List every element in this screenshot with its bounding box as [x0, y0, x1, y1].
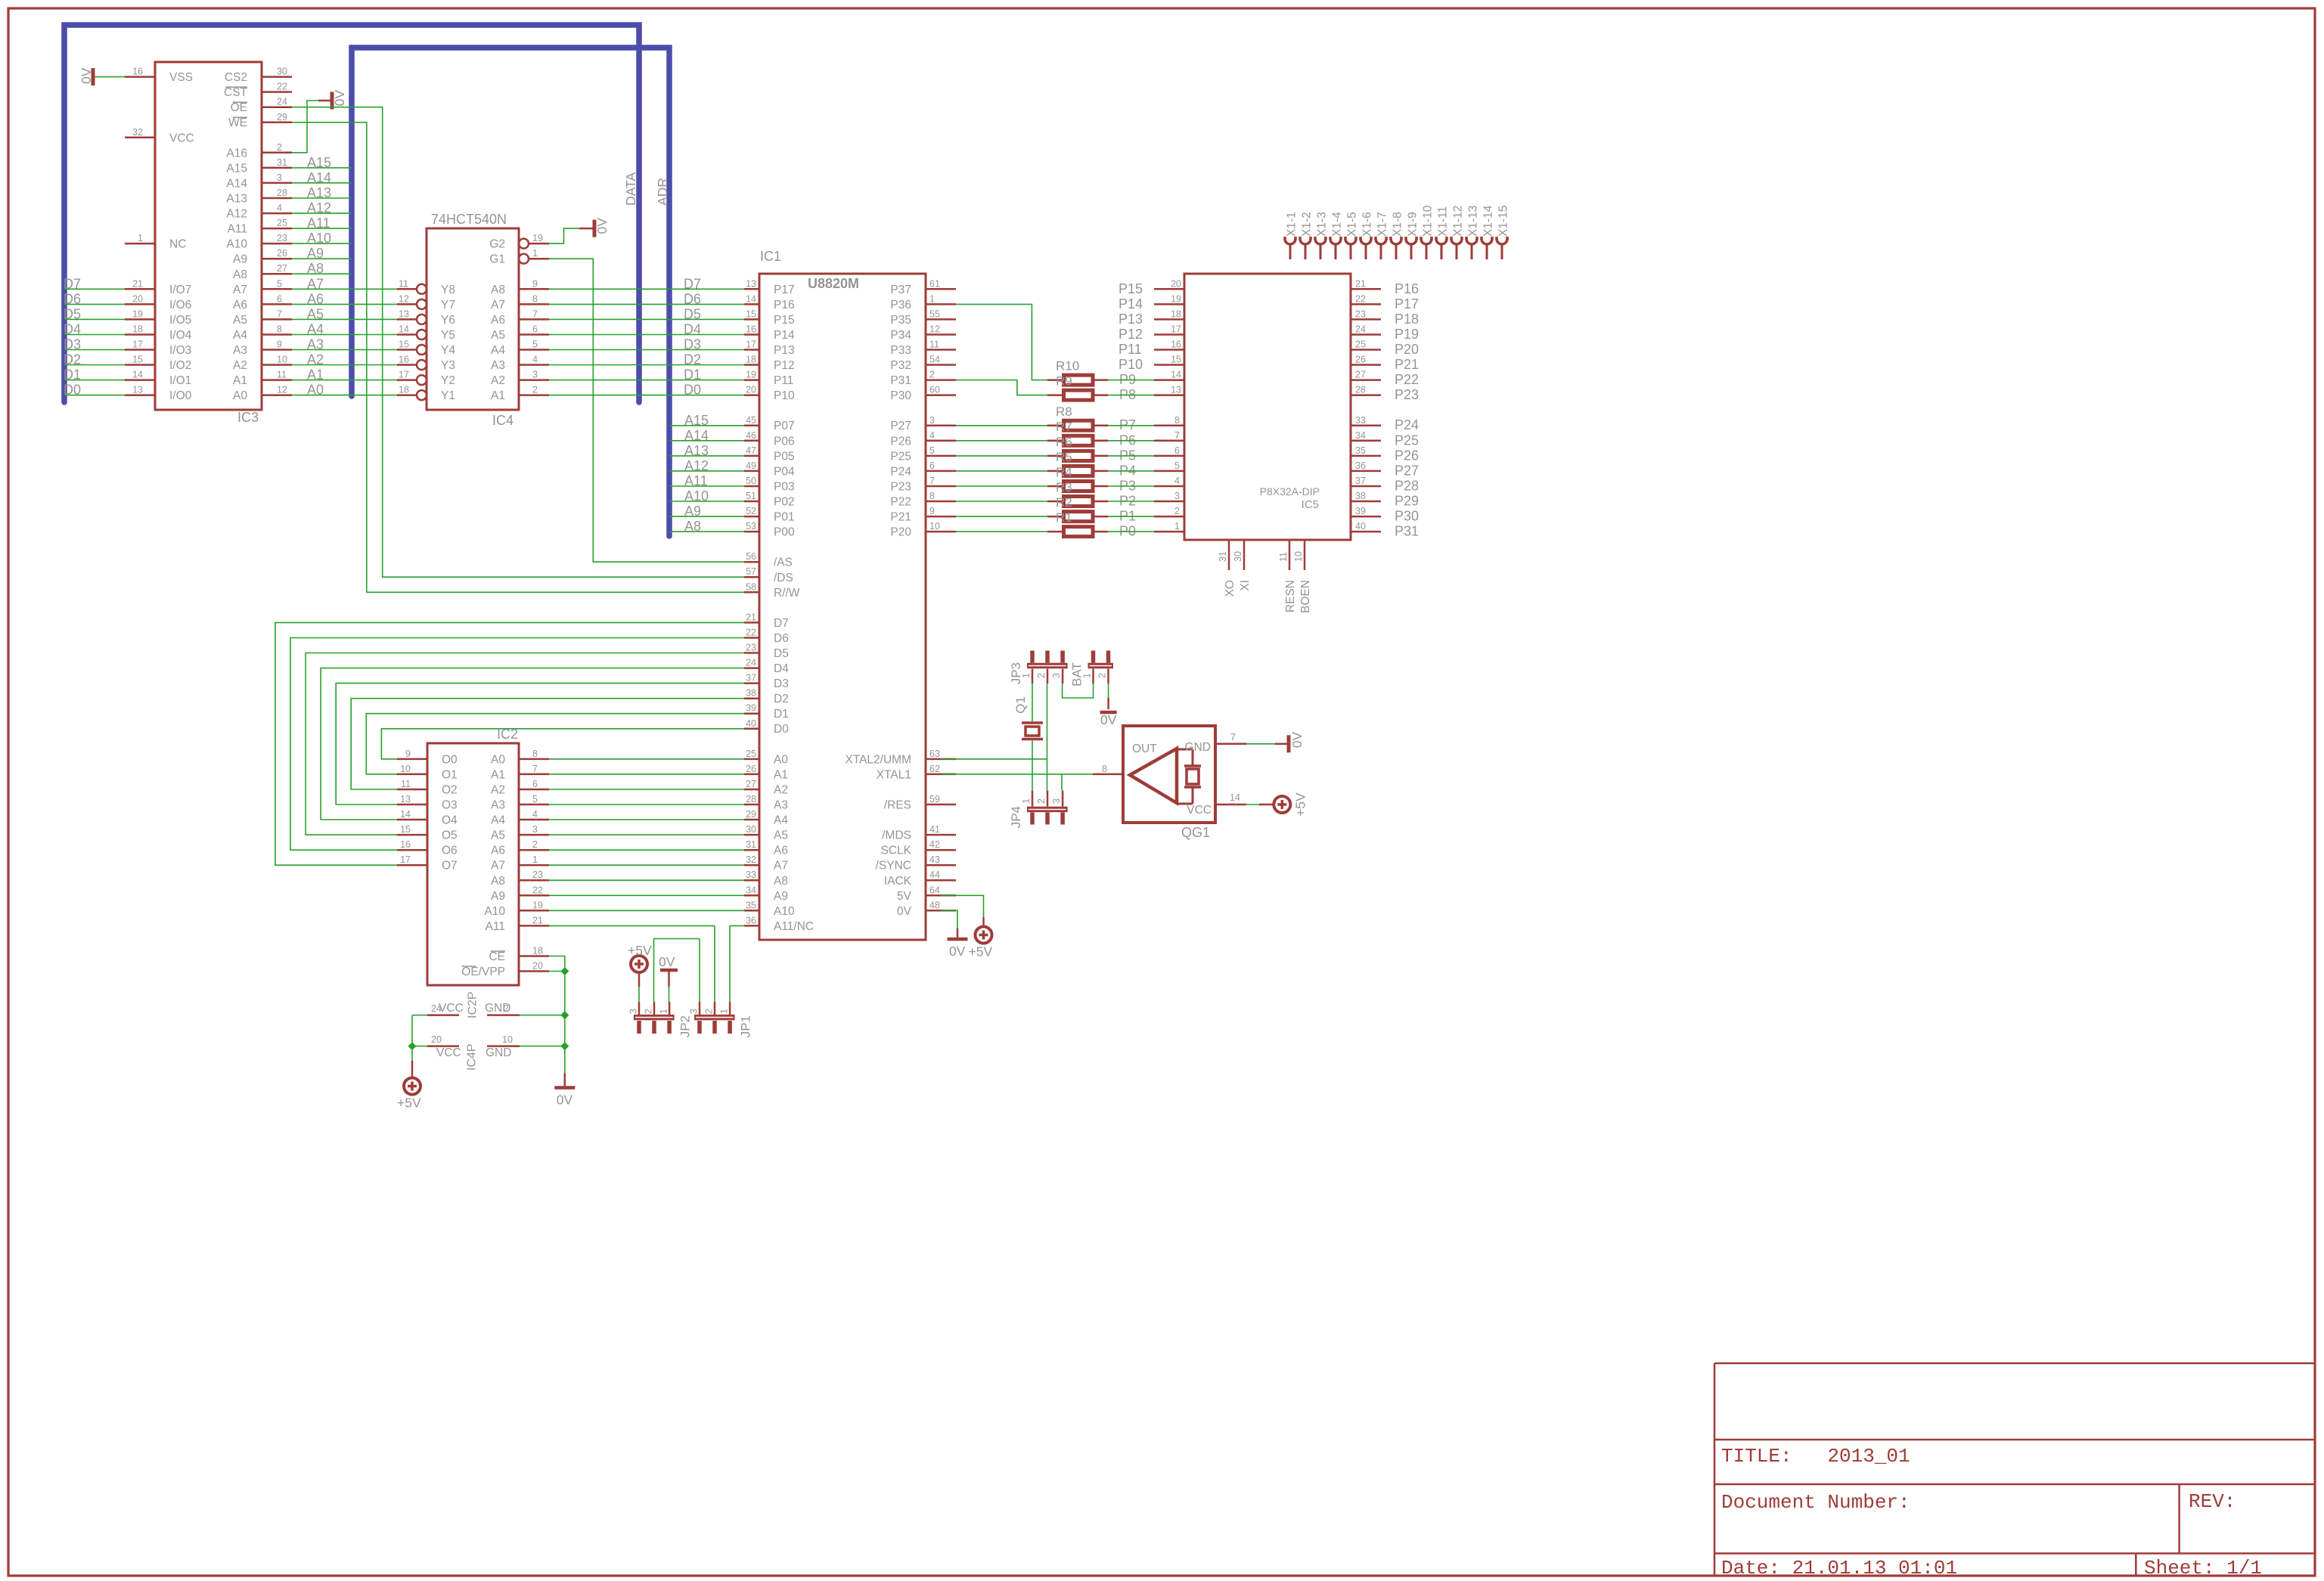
svg-text:35: 35 [746, 900, 756, 910]
svg-text:D5: D5 [64, 306, 81, 321]
svg-text:A6: A6 [774, 845, 788, 857]
svg-text:G2: G2 [489, 238, 505, 251]
svg-text:33: 33 [746, 870, 756, 880]
svg-text:50: 50 [746, 476, 756, 486]
svg-text:20: 20 [1171, 278, 1181, 289]
svg-text:P17: P17 [774, 284, 795, 296]
svg-text:SCLK: SCLK [881, 845, 912, 857]
svg-text:VSS: VSS [169, 71, 193, 84]
svg-text:53: 53 [746, 521, 756, 532]
svg-text:5: 5 [277, 278, 282, 289]
svg-text:P11: P11 [1119, 342, 1142, 357]
svg-text:28: 28 [1355, 385, 1366, 395]
svg-text:6: 6 [532, 779, 538, 789]
svg-text:IC5: IC5 [1302, 498, 1319, 511]
svg-text:P12: P12 [1119, 327, 1143, 342]
svg-text:X1-9: X1-9 [1407, 212, 1420, 237]
svg-text:P27: P27 [1395, 463, 1419, 478]
svg-text:21: 21 [1355, 278, 1366, 289]
svg-text:40: 40 [1355, 521, 1366, 532]
svg-text:31: 31 [277, 157, 287, 168]
svg-text:CE: CE [489, 950, 505, 963]
svg-text:5: 5 [929, 445, 935, 456]
svg-text:15: 15 [132, 355, 143, 365]
svg-text:O4: O4 [442, 814, 458, 827]
svg-text:14: 14 [1230, 792, 1240, 803]
svg-text:30: 30 [277, 67, 287, 77]
svg-text:+5V: +5V [1292, 792, 1308, 817]
svg-text:XTAL1: XTAL1 [877, 768, 911, 781]
svg-text:D0: D0 [64, 383, 81, 398]
svg-text:A6: A6 [307, 291, 324, 306]
svg-text:A8: A8 [307, 261, 324, 276]
svg-text:O1: O1 [442, 768, 458, 781]
svg-text:2: 2 [1036, 673, 1047, 678]
svg-text:U8820M: U8820M [808, 276, 859, 291]
svg-text:P21: P21 [890, 511, 911, 524]
svg-text:A12: A12 [226, 208, 247, 221]
svg-text:A7: A7 [491, 299, 505, 312]
svg-text:52: 52 [746, 506, 756, 516]
svg-text:P11: P11 [774, 374, 793, 387]
svg-text:O3: O3 [442, 799, 458, 812]
svg-text:P37: P37 [890, 284, 911, 296]
svg-text:A1: A1 [307, 367, 324, 383]
svg-text:43: 43 [929, 854, 940, 865]
svg-text:Y3: Y3 [441, 359, 455, 372]
svg-text:35: 35 [1355, 445, 1366, 456]
svg-text:10: 10 [502, 1034, 513, 1045]
svg-text:23: 23 [277, 233, 287, 243]
svg-text:CST: CST [224, 86, 248, 99]
svg-text:GND: GND [485, 1002, 510, 1015]
svg-text:30: 30 [1233, 551, 1243, 562]
svg-text:2: 2 [644, 1009, 654, 1014]
svg-text:1: 1 [929, 293, 935, 304]
svg-text:3: 3 [1174, 491, 1180, 501]
svg-text:A10: A10 [484, 905, 505, 918]
svg-text:A13: A13 [226, 193, 247, 206]
svg-text:P26: P26 [890, 435, 911, 448]
svg-text:39: 39 [746, 703, 756, 714]
svg-text:16: 16 [132, 67, 143, 77]
svg-text:A11: A11 [228, 223, 247, 236]
svg-text:A8: A8 [233, 268, 247, 281]
svg-text:A10: A10 [226, 238, 247, 251]
svg-text:17: 17 [1171, 324, 1181, 335]
svg-text:REV:: REV: [2189, 1490, 2236, 1513]
svg-text:D5: D5 [684, 306, 701, 321]
svg-text:27: 27 [277, 263, 287, 274]
svg-text:X1-7: X1-7 [1376, 212, 1389, 237]
svg-text:A6: A6 [233, 299, 247, 312]
svg-text:25: 25 [746, 749, 756, 759]
svg-text:27: 27 [1355, 370, 1366, 380]
svg-text:23: 23 [1355, 308, 1366, 319]
svg-text:+5V: +5V [969, 944, 993, 959]
svg-text:41: 41 [929, 824, 940, 835]
svg-text:47: 47 [746, 445, 756, 456]
svg-text:I/O3: I/O3 [169, 344, 191, 357]
svg-text:P34: P34 [890, 329, 911, 342]
svg-text:3: 3 [929, 415, 935, 426]
svg-text:6: 6 [1174, 445, 1180, 456]
svg-text:D6: D6 [684, 291, 701, 306]
svg-text:13: 13 [132, 385, 143, 395]
svg-text:P31: P31 [1395, 524, 1419, 539]
svg-text:51: 51 [746, 491, 756, 501]
svg-text:46: 46 [746, 430, 756, 441]
svg-text:14: 14 [400, 809, 411, 820]
svg-text:19: 19 [746, 370, 756, 380]
svg-text:28: 28 [746, 794, 756, 804]
svg-text:R//W: R//W [774, 587, 800, 600]
svg-text:DATA: DATA [623, 172, 638, 206]
svg-text:56: 56 [746, 551, 756, 562]
svg-text:A0: A0 [307, 383, 324, 398]
svg-text:P23: P23 [1395, 387, 1419, 402]
svg-text:12: 12 [277, 385, 287, 395]
svg-text:A2: A2 [774, 784, 788, 797]
svg-text:0V: 0V [1289, 731, 1305, 748]
svg-text:Y2: Y2 [441, 374, 455, 387]
svg-text:74HCT540N: 74HCT540N [431, 212, 507, 227]
svg-text:A0: A0 [774, 753, 788, 766]
svg-text:D1: D1 [64, 367, 81, 383]
svg-text:4: 4 [277, 203, 282, 213]
svg-text:17: 17 [399, 370, 409, 380]
svg-text:D1: D1 [684, 367, 701, 383]
svg-text:12: 12 [929, 324, 940, 335]
svg-text:42: 42 [929, 839, 940, 850]
svg-text:I/O7: I/O7 [169, 284, 191, 296]
svg-text:P17: P17 [1395, 296, 1419, 312]
svg-text:0V: 0V [79, 67, 94, 84]
svg-text:25: 25 [1355, 339, 1366, 350]
svg-text:D1: D1 [774, 708, 789, 721]
svg-text:9: 9 [532, 278, 538, 289]
svg-text:X1-6: X1-6 [1361, 212, 1374, 237]
svg-text:A5: A5 [774, 829, 788, 842]
svg-text:D2: D2 [64, 352, 81, 367]
svg-text:A3: A3 [233, 344, 247, 357]
svg-text:10: 10 [400, 764, 411, 774]
svg-text:14: 14 [746, 293, 756, 304]
svg-text:20: 20 [431, 1034, 442, 1045]
svg-text:P16: P16 [774, 299, 795, 312]
svg-text:6: 6 [929, 460, 935, 471]
svg-text:21: 21 [532, 915, 543, 925]
svg-text:P15: P15 [774, 314, 795, 327]
svg-text:A8: A8 [774, 875, 788, 888]
svg-text:1: 1 [1021, 798, 1032, 804]
svg-text:A3: A3 [774, 799, 788, 812]
svg-text:P14: P14 [774, 329, 795, 342]
svg-text:R1: R1 [1056, 510, 1072, 525]
svg-text:I/O0: I/O0 [169, 389, 192, 402]
svg-text:P05: P05 [774, 450, 795, 463]
svg-text:A12: A12 [684, 458, 709, 473]
svg-text:A1: A1 [774, 768, 788, 781]
svg-text:A9: A9 [774, 890, 788, 903]
svg-text:P29: P29 [1395, 494, 1419, 509]
svg-text:6: 6 [277, 293, 282, 304]
svg-text:30: 30 [746, 824, 756, 835]
svg-text:VCC: VCC [169, 132, 194, 144]
svg-text:2: 2 [1174, 506, 1180, 516]
svg-text:O5: O5 [442, 829, 458, 842]
svg-text:7: 7 [1174, 430, 1180, 441]
svg-text:A5: A5 [233, 314, 247, 327]
svg-text:BAT: BAT [1070, 662, 1084, 687]
svg-text:7: 7 [532, 308, 538, 319]
svg-text:1: 1 [532, 248, 538, 259]
svg-text:33: 33 [1355, 415, 1366, 426]
svg-text:3: 3 [532, 824, 538, 835]
svg-text:32: 32 [746, 854, 756, 865]
svg-text:IC2: IC2 [497, 727, 518, 742]
svg-text:P06: P06 [774, 435, 795, 448]
svg-text:9: 9 [405, 749, 411, 759]
svg-text:X1-8: X1-8 [1392, 212, 1404, 237]
svg-text:P30: P30 [890, 389, 911, 402]
svg-text:10: 10 [929, 521, 940, 532]
svg-text:A9: A9 [491, 890, 505, 903]
svg-text:21: 21 [132, 278, 143, 289]
svg-text:58: 58 [746, 581, 756, 592]
svg-text:D7: D7 [774, 617, 789, 630]
svg-text:A15: A15 [226, 162, 247, 175]
svg-text:GND: GND [486, 1046, 511, 1059]
svg-text:A14: A14 [684, 428, 709, 443]
svg-text:/DS: /DS [774, 572, 793, 584]
svg-text:18: 18 [399, 385, 409, 395]
svg-text:P28: P28 [1395, 479, 1419, 494]
svg-text:60: 60 [929, 385, 940, 395]
svg-text:37: 37 [1355, 476, 1366, 486]
svg-text:X1-3: X1-3 [1316, 212, 1329, 237]
svg-text:I/O1: I/O1 [169, 374, 191, 387]
svg-text:8: 8 [277, 324, 282, 335]
svg-text:P10: P10 [774, 389, 795, 402]
svg-text:38: 38 [1355, 491, 1366, 501]
svg-text:TITLE: 2013_01: TITLE: 2013_01 [1721, 1445, 1910, 1468]
svg-text:10: 10 [1293, 551, 1304, 562]
svg-text:R7: R7 [1056, 420, 1072, 434]
svg-text:16: 16 [746, 324, 756, 335]
svg-text:24: 24 [1355, 324, 1366, 335]
svg-text:A7: A7 [307, 276, 324, 291]
svg-text:P33: P33 [890, 344, 911, 357]
svg-text:22: 22 [532, 885, 543, 895]
svg-text:Y1: Y1 [441, 389, 455, 402]
svg-text:36: 36 [1355, 460, 1366, 471]
svg-text:Document Number:: Document Number: [1721, 1491, 1910, 1514]
svg-text:57: 57 [746, 566, 756, 577]
svg-text:19: 19 [1171, 293, 1181, 304]
svg-text:8: 8 [929, 491, 935, 501]
svg-text:26: 26 [277, 248, 287, 259]
svg-text:IACK: IACK [884, 875, 912, 888]
svg-text:1: 1 [1174, 521, 1180, 532]
svg-text:P23: P23 [890, 481, 911, 494]
svg-text:7: 7 [277, 308, 282, 319]
svg-text:X1-5: X1-5 [1346, 212, 1359, 237]
svg-text:4: 4 [532, 809, 538, 820]
svg-text:A11: A11 [486, 920, 505, 933]
svg-text:P31: P31 [890, 374, 911, 387]
svg-text:62: 62 [929, 764, 940, 774]
svg-text:0V: 0V [594, 218, 610, 234]
svg-text:A11: A11 [684, 473, 708, 488]
svg-text:D2: D2 [684, 352, 701, 367]
svg-text:IC2P: IC2P [467, 991, 479, 1018]
svg-text:A15: A15 [684, 413, 709, 428]
svg-text:CS2: CS2 [225, 71, 247, 84]
svg-text:P01: P01 [774, 511, 795, 524]
svg-text:9: 9 [929, 506, 935, 516]
svg-text:40: 40 [746, 718, 756, 729]
svg-text:VCC: VCC [436, 1046, 461, 1059]
svg-text:A2: A2 [233, 359, 247, 372]
svg-text:14: 14 [1171, 370, 1181, 380]
svg-text:A14: A14 [226, 177, 247, 190]
svg-text:O0: O0 [442, 753, 458, 766]
svg-text:D7: D7 [684, 276, 701, 291]
svg-text:O2: O2 [442, 784, 458, 797]
svg-text:P20: P20 [1395, 342, 1419, 357]
svg-text:A7: A7 [491, 860, 505, 873]
svg-text:A14: A14 [307, 170, 331, 185]
svg-text:2: 2 [277, 142, 282, 153]
svg-text:A2: A2 [491, 784, 505, 797]
svg-text:Y7: Y7 [441, 299, 455, 312]
svg-text:D4: D4 [774, 662, 789, 675]
svg-text:61: 61 [929, 278, 940, 289]
svg-text:54: 54 [929, 355, 940, 365]
svg-text:2: 2 [1097, 673, 1108, 678]
svg-text:Y8: Y8 [441, 284, 455, 296]
svg-text:7: 7 [532, 764, 538, 774]
svg-text:A10: A10 [774, 905, 795, 918]
svg-text:22: 22 [746, 628, 756, 638]
svg-text:3: 3 [689, 1009, 700, 1014]
svg-text:/SYNC: /SYNC [876, 860, 911, 873]
svg-text:P13: P13 [774, 344, 795, 357]
svg-text:2: 2 [929, 370, 935, 380]
svg-text:17: 17 [132, 339, 143, 350]
svg-text:X1-2: X1-2 [1301, 212, 1314, 237]
svg-text:15: 15 [400, 824, 411, 835]
svg-text:A11: A11 [307, 215, 330, 231]
svg-text:IC3: IC3 [237, 410, 259, 425]
svg-text:5: 5 [532, 339, 538, 350]
svg-text:0V: 0V [557, 1093, 573, 1108]
svg-text:A9: A9 [684, 504, 701, 519]
svg-text:32: 32 [132, 127, 143, 138]
svg-text:P20: P20 [890, 526, 911, 539]
svg-text:P15: P15 [1119, 281, 1143, 296]
svg-text:A4: A4 [307, 322, 324, 337]
svg-text:A5: A5 [491, 829, 505, 842]
svg-text:OUT: OUT [1132, 742, 1157, 755]
svg-text:A16: A16 [226, 147, 247, 160]
svg-text:17: 17 [400, 854, 411, 865]
svg-text:O7: O7 [442, 860, 458, 873]
svg-text:P16: P16 [1395, 281, 1419, 296]
svg-text:P32: P32 [890, 359, 911, 372]
svg-text:X1-13: X1-13 [1467, 206, 1480, 237]
svg-text:13: 13 [746, 278, 756, 289]
svg-text:Q1: Q1 [1013, 696, 1028, 714]
svg-text:23: 23 [532, 870, 543, 880]
svg-text:8: 8 [1102, 764, 1107, 774]
svg-text:P22: P22 [890, 496, 911, 509]
svg-text:JP3: JP3 [1009, 662, 1023, 684]
svg-text:X1-12: X1-12 [1452, 206, 1465, 237]
svg-text:2: 2 [704, 1009, 715, 1014]
svg-text:D3: D3 [64, 337, 81, 352]
svg-text:4: 4 [532, 355, 538, 365]
svg-text:59: 59 [929, 794, 940, 804]
svg-text:/RES: /RES [884, 799, 911, 812]
svg-text:29: 29 [746, 809, 756, 820]
svg-text:22: 22 [277, 82, 287, 92]
svg-text:0V: 0V [332, 90, 347, 107]
svg-text:P24: P24 [890, 465, 911, 478]
svg-text:P21: P21 [1395, 357, 1419, 372]
svg-text:1: 1 [532, 854, 538, 865]
svg-text:0V: 0V [949, 944, 966, 959]
svg-text:2: 2 [532, 385, 538, 395]
svg-text:R10: R10 [1056, 359, 1079, 374]
svg-text:R6: R6 [1056, 435, 1072, 449]
svg-text:A2: A2 [307, 352, 324, 367]
svg-text:XI: XI [1239, 580, 1252, 591]
svg-text:34: 34 [1355, 430, 1366, 441]
svg-text:22: 22 [1355, 293, 1366, 304]
svg-text:11: 11 [399, 278, 408, 289]
svg-text:P14: P14 [1119, 296, 1143, 312]
svg-text:44: 44 [929, 870, 940, 880]
svg-text:A5: A5 [491, 329, 505, 342]
svg-text:P36: P36 [890, 299, 911, 312]
svg-text:+5V: +5V [397, 1096, 421, 1111]
svg-text:24: 24 [277, 97, 287, 107]
svg-text:4: 4 [1174, 476, 1180, 486]
svg-text:23: 23 [746, 643, 756, 653]
svg-text:8: 8 [532, 749, 538, 759]
svg-text:37: 37 [746, 673, 756, 684]
svg-text:RESN: RESN [1284, 580, 1297, 612]
svg-text:13: 13 [1171, 385, 1181, 395]
svg-text:/MDS: /MDS [882, 829, 911, 842]
svg-text:A4: A4 [233, 329, 247, 342]
svg-text:1: 1 [659, 1009, 669, 1014]
svg-text:VCC: VCC [1187, 804, 1212, 817]
svg-text:20: 20 [746, 385, 756, 395]
svg-text:A7: A7 [233, 284, 247, 296]
svg-text:X1-1: X1-1 [1286, 212, 1299, 237]
svg-text:XTAL2/UMM: XTAL2/UMM [845, 753, 911, 766]
svg-text:A0: A0 [491, 753, 505, 766]
svg-text:D4: D4 [684, 322, 701, 337]
svg-text:R2: R2 [1056, 495, 1072, 510]
svg-text:JP4: JP4 [1009, 806, 1023, 828]
svg-text:D2: D2 [774, 693, 789, 705]
svg-text:3: 3 [277, 172, 282, 183]
svg-text:X1-4: X1-4 [1331, 212, 1344, 237]
